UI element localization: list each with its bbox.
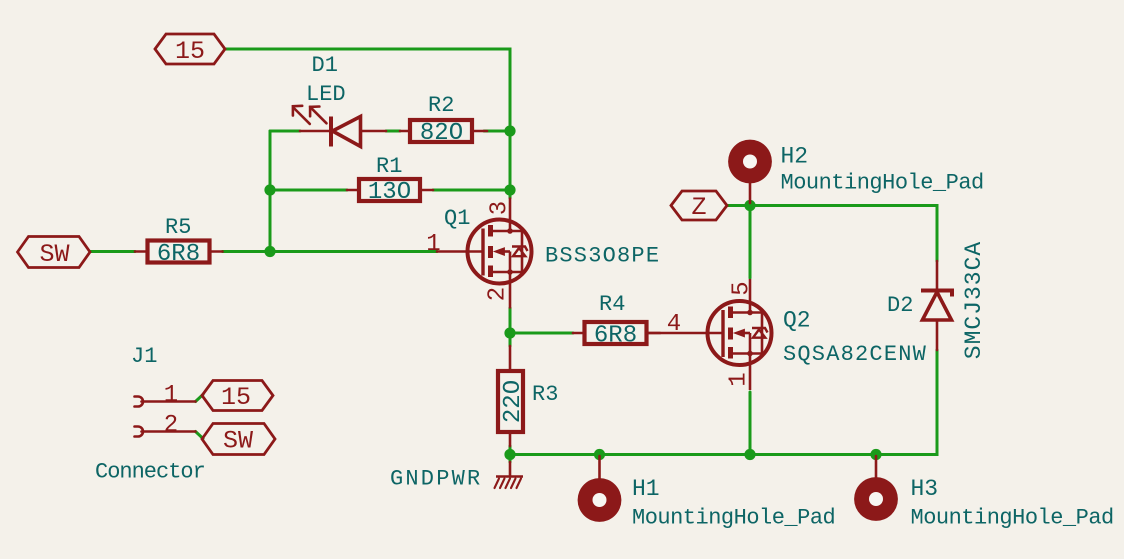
svg-text:4: 4 [667,311,681,338]
mounting hole pad H1 [598,456,601,479]
svg-text:BSS3O8PE: BSS3O8PE [545,244,660,269]
global label SW left [18,237,91,268]
junction node R5-Q1 gate [264,246,275,257]
svg-text:R3: R3 [532,382,558,407]
svg-text:Z: Z [691,193,706,222]
svg-text:R5: R5 [165,215,191,240]
svg-text:1: 1 [164,382,178,409]
svg-text:GNDPWR: GNDPWR [390,467,482,492]
wire LED net left vertical [269,131,272,252]
wire R1 left [270,189,347,192]
wire R2 to rail [484,130,510,133]
svg-text:6R8: 6R8 [157,241,200,268]
wire J1 pin1 stub [196,395,204,402]
resistor R1 [347,189,359,192]
svg-text:1: 1 [426,231,440,258]
wire Q2 drain [749,206,752,279]
wire SW to R5 [90,250,135,253]
svg-text:6R8: 6R8 [594,323,637,350]
svg-text:MountingHole_Pad: MountingHole_Pad [781,171,984,196]
mounting hole pad H2 [749,183,752,203]
wire J1 pin2 stub [196,432,204,439]
svg-text:3: 3 [487,201,514,215]
svg-text:1: 1 [726,372,753,386]
transistor Q2 [647,332,723,335]
global label Z [671,191,727,220]
svg-text:MountingHole_Pad: MountingHole_Pad [632,506,835,531]
junction node H1 [594,449,605,460]
svg-text:SW: SW [39,240,69,269]
wire R5 to Q1 gate [223,250,438,253]
junction node H3 [870,449,881,460]
svg-text:D2: D2 [887,293,913,318]
svg-text:R1: R1 [376,154,402,179]
wire Z net horizontal [727,206,937,262]
svg-text:82O: 82O [420,120,463,147]
global label 15 top [155,34,225,64]
svg-text:15: 15 [175,37,205,66]
svg-text:SQSA82CENW: SQSA82CENW [783,342,927,367]
svg-text:5: 5 [729,281,756,295]
svg-text:2: 2 [485,287,512,301]
svg-text:Connector: Connector [95,460,205,485]
mounting hole pad H3 [875,456,878,478]
global label 15 at J1 [202,381,273,411]
svg-text:Q1: Q1 [444,206,470,231]
wire Q2 source down [749,392,752,455]
J1 pin 2 [135,427,144,437]
J1 pin 1 [135,397,144,407]
diode D2 TVS [936,261,939,290]
svg-text:D1: D1 [312,53,338,78]
wire Q1 source down [509,308,512,346]
wire Q1 source to R4 [510,332,573,335]
ground GNDPWR [509,462,512,477]
svg-text:SW: SW [223,427,253,456]
svg-text:22O: 22O [500,380,527,423]
junction node Q2 source [744,449,755,460]
resistor R2 [400,130,410,133]
LED arrow 2 [310,107,326,123]
svg-text:H2: H2 [781,144,809,170]
svg-text:2: 2 [164,412,178,439]
svg-text:R2: R2 [428,93,454,118]
svg-text:H1: H1 [632,476,660,502]
svg-text:J1: J1 [131,344,157,369]
svg-text:H3: H3 [911,476,939,502]
wire R1 right [433,189,510,192]
svg-text:LED: LED [306,82,346,107]
wire LED to R2 [386,130,400,133]
junction node Q1 source [504,327,515,338]
junction node R1 right [504,184,515,195]
junction node Z [744,200,755,211]
resistor R3 vertical [509,346,512,371]
resistor R4 [573,332,585,335]
transistor Q1 [437,250,483,253]
svg-text:SMCJ33CA: SMCJ33CA [961,241,987,359]
wire LED left [270,130,300,133]
wire 15 rail top [225,49,510,198]
LED arrow 1 [293,108,310,124]
junction node R2 right [504,125,515,136]
svg-text:R4: R4 [599,292,625,317]
junction node GND [504,449,515,460]
junction node R1-LED left [264,184,275,195]
svg-text:13O: 13O [368,179,411,206]
wire bottom rail [510,350,937,455]
svg-text:MountingHole_Pad: MountingHole_Pad [911,506,1114,531]
svg-text:Q2: Q2 [783,308,811,334]
wire R3 bottom to gnd junction [509,446,512,462]
global label SW at J1 [202,424,275,455]
resistor R5 [135,250,148,253]
svg-text:15: 15 [221,383,251,412]
